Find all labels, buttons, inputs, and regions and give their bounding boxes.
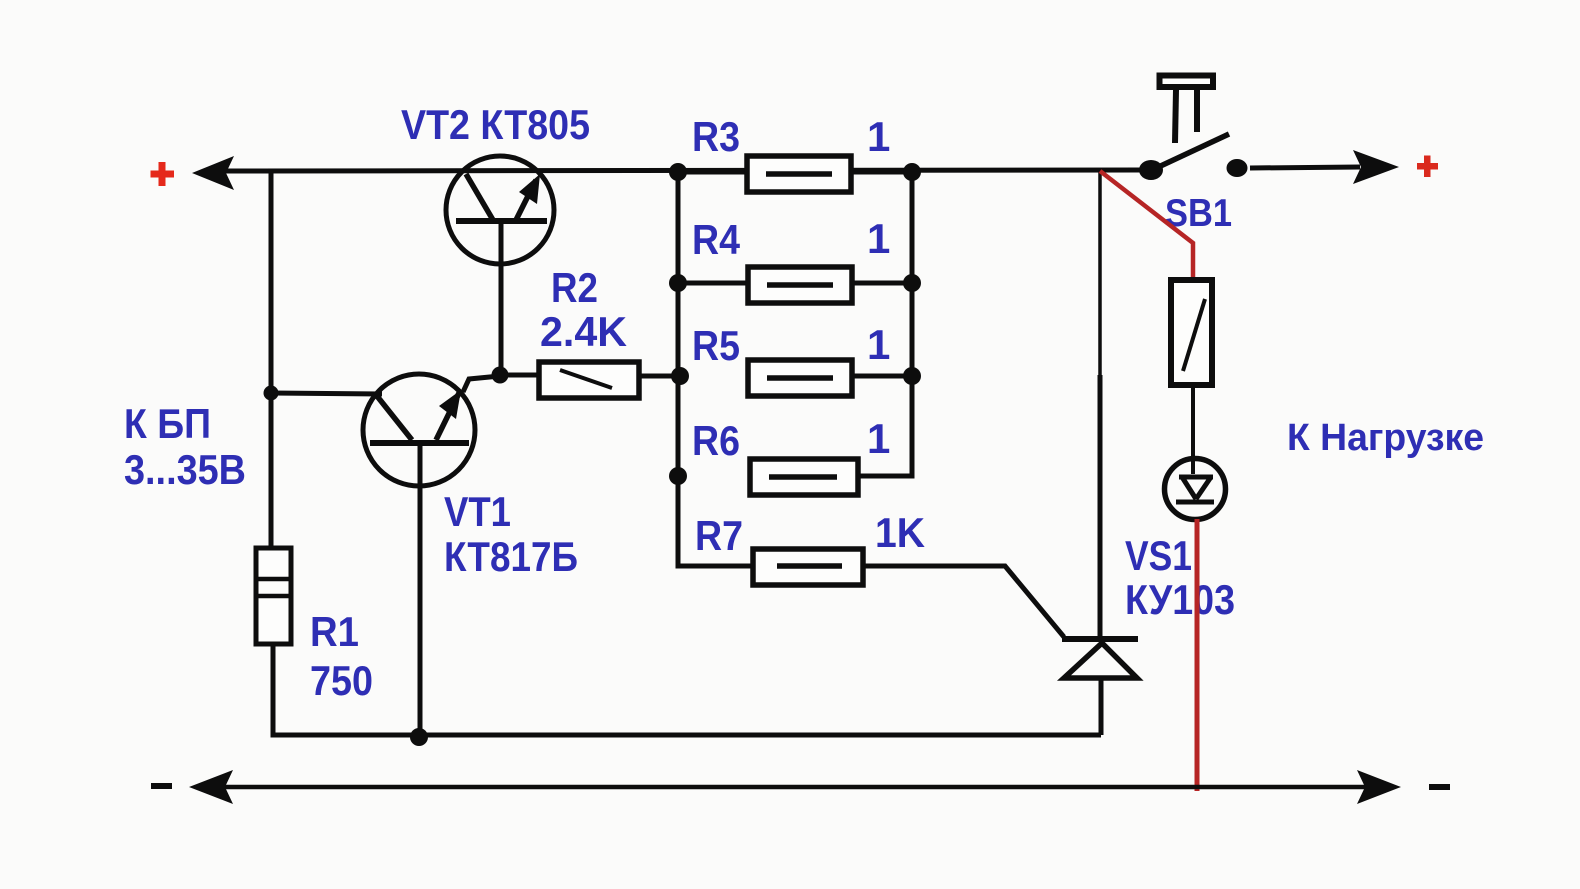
- resistor R5: [748, 360, 912, 396]
- wire switch feeder vertical (thin upper): [1098, 171, 1102, 375]
- svg-text:1: 1: [867, 415, 890, 462]
- svg-text:К БП: К БП: [124, 400, 211, 447]
- wire switch to right arrow: [1250, 167, 1360, 168]
- wire to VT1 base circle: [271, 393, 382, 394]
- wire bottom return: [273, 646, 1101, 735]
- breaker / fuse box: [1171, 280, 1212, 385]
- svg-text:R5: R5: [692, 322, 740, 369]
- node VT1 base at bottom: [410, 728, 428, 746]
- resistor R7: [753, 549, 863, 585]
- node R3 left: [669, 163, 687, 181]
- resistor R3: [678, 156, 912, 192]
- svg-text:1: 1: [867, 113, 890, 160]
- + label left (red): [151, 162, 175, 186]
- node R4 left: [669, 274, 687, 292]
- svg-text:VT2 КТ805: VT2 КТ805: [401, 101, 590, 148]
- wire right bank bus: [858, 171, 912, 476]
- svg-text:2.4K: 2.4K: [540, 308, 627, 355]
- transistor VT2: [446, 156, 554, 375]
- svg-text:750: 750: [310, 657, 373, 704]
- resistor R2: [539, 362, 639, 398]
- wire R7 to thyristor gate: [863, 566, 1064, 637]
- node junction at left bus: [264, 386, 279, 401]
- resistor R1: [256, 548, 291, 644]
- svg-text:VT1: VT1: [444, 488, 511, 535]
- wire left bus vertical: [269, 171, 274, 550]
- svg-text:КУ103: КУ103: [1125, 576, 1235, 623]
- node R6 left: [669, 467, 687, 485]
- minus dash left: [151, 783, 172, 789]
- + label right (red): [1417, 156, 1438, 178]
- svg-text:1K: 1K: [875, 509, 925, 556]
- resistor R6: [750, 459, 912, 495]
- svg-text:R7: R7: [695, 512, 743, 559]
- node junction VT2 base / R2: [492, 367, 509, 384]
- svg-text:R6: R6: [692, 417, 740, 464]
- node R5 right: [903, 367, 921, 385]
- wire to thyristor anode (thicker lower): [1098, 375, 1103, 641]
- svg-text:R4: R4: [692, 216, 741, 263]
- svg-text:R1: R1: [310, 608, 359, 655]
- node R3 right: [903, 163, 921, 181]
- resistor R4: [678, 267, 912, 303]
- wire top positive rail: [212, 170, 1148, 171]
- svg-text:1: 1: [867, 215, 890, 262]
- negative rail right arrowhead: [1357, 770, 1401, 804]
- wire left bank bus: [678, 172, 753, 566]
- wire breaker to circle symbol: [1191, 385, 1195, 474]
- svg-text:R2: R2: [551, 264, 598, 311]
- node R4 right: [903, 274, 921, 292]
- thyristor VS1 symbol: [1062, 639, 1138, 735]
- wire R2 to left bank bus: [639, 374, 680, 379]
- negative rail double arrow: [205, 785, 1390, 790]
- svg-text:R3: R3: [692, 113, 740, 160]
- red wire from top rail to breaker: [1100, 171, 1193, 281]
- svg-text:К Нагрузке: К Нагрузке: [1287, 417, 1484, 459]
- svg-text:3...35В: 3...35В: [124, 446, 246, 493]
- negative rail left arrowhead: [189, 770, 233, 804]
- svg-text:КТ817Б: КТ817Б: [444, 533, 578, 580]
- wire node to R2: [500, 373, 539, 378]
- node R5 left: [671, 367, 689, 385]
- transistor VT1: [363, 374, 500, 737]
- minus dash right: [1429, 784, 1450, 790]
- thyristor VS1 circled symbol: [1165, 459, 1226, 520]
- left terminal arrow: [192, 156, 234, 190]
- switch SB1: [1139, 76, 1248, 181]
- svg-text:VS1: VS1: [1125, 532, 1192, 579]
- right terminal arrow: [1353, 150, 1399, 184]
- red wire circle to bottom: [1195, 519, 1200, 791]
- svg-text:1: 1: [867, 321, 890, 368]
